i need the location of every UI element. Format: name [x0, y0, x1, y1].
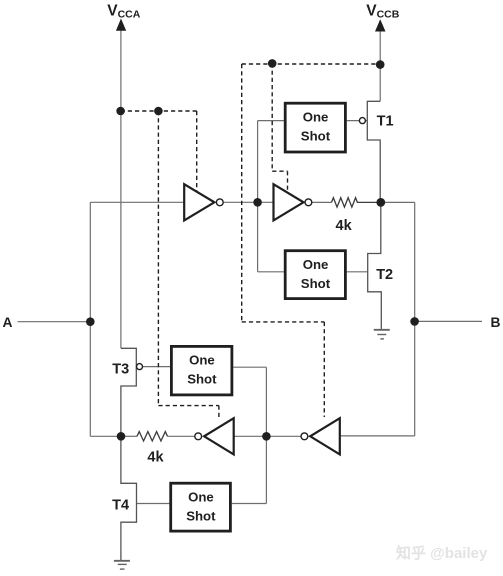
inverter U3 output bubble: [195, 433, 202, 440]
wire B bus bottom to inverter U4 input: [340, 435, 415, 437]
transistor T3 body: [121, 348, 136, 436]
label T1: [377, 113, 394, 129]
transistor T4 body: [121, 436, 137, 561]
svg-text:One: One: [189, 353, 215, 368]
transistor T1 body: [367, 101, 380, 202]
svg-text:Shot: Shot: [187, 372, 217, 387]
node dashed branch right: [268, 59, 277, 68]
label R1 4k: [336, 218, 353, 234]
node VCCA dashed tap: [116, 107, 125, 116]
wire T3 gate bubble to one-shot OS3 input: [143, 366, 172, 368]
one-shot OS3 box: [171, 346, 232, 395]
inverter U1: [184, 184, 214, 220]
dashed net from VCCA node: [121, 110, 197, 112]
wire to one-shot OS1 input: [258, 120, 284, 122]
label T4: [112, 498, 129, 514]
label A: [3, 315, 13, 330]
wire inverter U2 output to resistor R1: [312, 201, 332, 203]
wire A-side bus vertical: [89, 202, 91, 436]
wire one-shot OS4 output: [232, 503, 267, 505]
svg-text:B: B: [491, 315, 501, 330]
node B-side resistor junction: [376, 198, 385, 207]
svg-text:T1: T1: [377, 113, 394, 129]
dashed drop to inverter U2 enable: [272, 63, 287, 190]
node dashed branch: [154, 107, 163, 116]
wire resistor R2 to inverter U3 output bubble: [168, 435, 195, 437]
wire inverter U3 input to inverter U4 output bubble: [234, 435, 301, 437]
label R2 4k: [147, 450, 164, 466]
svg-text:T4: T4: [112, 498, 129, 514]
svg-text:One: One: [188, 489, 214, 504]
svg-text:Shot: Shot: [186, 508, 216, 523]
transistor T2 body: [368, 202, 382, 329]
wire VCCB rail vertical: [379, 30, 381, 101]
svg-text:CCB: CCB: [377, 8, 400, 20]
wire inverter U1 output to inverter U2 input: [224, 201, 274, 203]
one-shot OS2 box: [285, 251, 345, 299]
ground under T4: [114, 561, 130, 569]
resistor R1 4k: [332, 198, 381, 207]
node VCCB dashed tap: [376, 60, 385, 69]
svg-text:4k: 4k: [147, 450, 164, 466]
inverter U3: [204, 418, 234, 454]
inverter U4: [310, 418, 340, 454]
node inverter U1 output: [253, 198, 262, 207]
wire A bus bottom to node: [90, 435, 121, 437]
one-shot OS4 box: [171, 483, 231, 531]
dashed drop to inverter U1 enable: [196, 111, 198, 192]
svg-text:One: One: [303, 109, 329, 124]
svg-text:Shot: Shot: [301, 276, 331, 291]
svg-text:CCA: CCA: [118, 8, 141, 20]
transistor T1 gate bubble: [359, 118, 365, 124]
wire to one-shot OS2 input: [258, 271, 284, 273]
inverter U1 output bubble: [216, 199, 223, 206]
dashed run to inverter U4 enable: [242, 322, 325, 417]
wire A bus to inverter U1 input: [90, 201, 184, 203]
node one-shot output junction: [262, 432, 271, 441]
wire B pin: [415, 320, 482, 322]
node B: [410, 317, 419, 326]
label VCCA: [107, 2, 140, 20]
wire one-shot OS3 output: [233, 366, 266, 368]
dashed drop at 241: [241, 64, 243, 322]
resistor R2 4k: [137, 432, 168, 441]
svg-text:知乎 @bailey: 知乎 @bailey: [396, 544, 488, 562]
node A-side resistor junction: [117, 432, 126, 441]
wire VCCA rail vertical: [120, 30, 122, 349]
dashed run to inverter U3 enable: [158, 406, 219, 420]
wire B-side bus vertical: [414, 202, 416, 436]
inverter U2: [274, 184, 304, 220]
inverter U4 output bubble: [301, 433, 308, 440]
label B: [491, 315, 501, 330]
wire T4 gate to one-shot OS4 input: [137, 503, 171, 505]
power symbol VCCA arrow: [116, 19, 126, 31]
wire one-shot OS1 output to T1 gate: [347, 120, 368, 122]
svg-text:4k: 4k: [336, 218, 353, 234]
node A: [86, 317, 95, 326]
svg-text:T3: T3: [112, 361, 129, 377]
svg-text:One: One: [303, 257, 329, 272]
svg-text:Shot: Shot: [301, 128, 331, 143]
wire one-shot OS2 output to T2 gate: [347, 271, 368, 273]
label VCCB: [366, 2, 399, 20]
label T2: [376, 267, 393, 283]
wire node to B bus top: [381, 201, 415, 203]
wire one-shot outputs vertical: [265, 367, 267, 503]
watermark: [396, 544, 488, 562]
label T3: [112, 361, 129, 377]
svg-text:T2: T2: [376, 267, 393, 283]
transistor T3 gate bubble: [137, 364, 143, 370]
inverter U2 output bubble: [305, 199, 312, 206]
power symbol VCCB arrow: [375, 19, 386, 31]
wire A pin: [18, 321, 91, 323]
dashed drop from node at 158: [157, 111, 159, 406]
wire node row bottom left lead: [121, 435, 137, 437]
dashed net from VCCB node: [242, 63, 381, 65]
one-shot OS1 box: [285, 103, 345, 152]
wire one-shot feed vertical: [257, 121, 259, 272]
ground under T2: [374, 330, 390, 339]
svg-text:A: A: [3, 315, 13, 330]
